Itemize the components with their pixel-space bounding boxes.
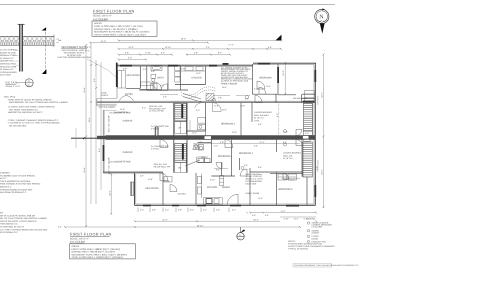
laundry boxes bottom unit [198, 145, 210, 163]
svg-text:16'x7' O.H. DOOR: 16'x7' O.H. DOOR [108, 157, 111, 174]
svg-text:COPYRIGHT RESERVED. THIS PLAN: COPYRIGHT RESERVED. THIS PLAN AND DESIGN… [294, 264, 359, 267]
svg-text:11'-8": 11'-8" [148, 178, 153, 181]
svg-text:12.7mm GYPSUM: 12.7mm GYPSUM [0, 49, 17, 52]
NOTES left column [4, 96, 68, 128]
svg-text:21'-8": 21'-8" [101, 40, 106, 43]
svg-text:TYPICAL (IF NOTED): TYPICAL (IF NOTED) [288, 247, 308, 250]
svg-text:OR OF 15.5mm PLYWOOD, OSB OR: OR OF 15.5mm PLYWOOD, OSB OR [0, 214, 35, 217]
svg-text:RD, OR 17mm TONGUE AND GROOVE: RD, OR 17mm TONGUE AND GROOVE LUMBER [0, 217, 47, 220]
svg-text:3'-0": 3'-0" [244, 164, 248, 167]
svg-text:AT 400mm O.C.: AT 400mm O.C. [0, 57, 15, 60]
svg-text:2'-8": 2'-8" [151, 70, 155, 73]
svg-text:13'-2": 13'-2" [282, 70, 285, 75]
svg-text:24'-8": 24'-8" [83, 87, 86, 92]
interior walls top unit [97, 64, 315, 136]
svg-text:GARAGE AREA = 257.06 S: GARAGE AREA = 257.06 SQ.FT. (23.88m²) [94, 28, 138, 31]
svg-text:- 2 LAYERS OF 12.7mm (½") TYPE: - 2 LAYERS OF 12.7mm (½") TYPE X GYPSUM … [7, 122, 60, 125]
svg-text:FIRST FLOOR AREA = 388.87 SQ.: FIRST FLOOR AREA = 388.87 SQ.FT. (36.13m… [71, 248, 120, 251]
svg-text:33'-4": 33'-4" [321, 169, 324, 174]
svg-text:10'-0": 10'-0" [290, 179, 295, 182]
svg-text:12'-6": 12'-6" [232, 131, 237, 134]
svg-text:BEDROOM 2: BEDROOM 2 [221, 123, 236, 126]
svg-text:G BOARD: G BOARD [0, 172, 10, 175]
svg-text:2x6 WALL: 2x6 WALL [178, 193, 188, 196]
svg-text:GARAGE: GARAGE [123, 151, 133, 154]
svg-text:12.7mm GYP BD: 12.7mm GYP BD [149, 110, 164, 113]
misc note blocks inside plan [178, 66, 309, 195]
svg-text:MUD ROOM: MUD ROOM [145, 187, 158, 190]
svg-text:SECONDARY SUITE AREA = 646.17: SECONDARY SUITE AREA = 646.17 SQ.FT. (60… [71, 253, 127, 256]
svg-text:12'-0": 12'-0" [192, 148, 197, 151]
svg-text:JOISTS OR WOOD I-JOISTS SPACED: JOISTS OR WOOD I-JOISTS SPACED [0, 220, 37, 223]
svg-text:11'-2": 11'-2" [214, 105, 219, 108]
svg-text:GYPSUM BOARD: GYPSUM BOARD [0, 71, 17, 74]
svg-text:4'-0": 4'-0" [165, 209, 169, 212]
left/right dim labels [83, 70, 324, 195]
svg-text:4'-0": 4'-0" [160, 84, 164, 87]
svg-text:3'-6": 3'-6" [163, 96, 167, 99]
svg-text:GARAGE AREA = 260.38 S: GARAGE AREA = 260.38 SQ.FT. (24.19m²) [71, 251, 115, 254]
svg-text:100 AMP PANEL: 100 AMP PANEL [293, 97, 309, 100]
top rule [0, 4, 335, 6]
copyright [293, 264, 332, 267]
svg-text:11'-4": 11'-4" [258, 197, 263, 200]
svg-text:9'-6": 9'-6" [258, 166, 262, 169]
svg-text:5'-0": 5'-0" [232, 209, 236, 212]
svg-text:5'-8": 5'-8" [123, 68, 127, 71]
svg-text:KITCHEN: KITCHEN [191, 76, 201, 79]
svg-text:6'-2": 6'-2" [140, 175, 144, 178]
svg-text:ENTRY: ENTRY [125, 93, 133, 96]
svg-text:WALL (P7a): WALL (P7a) [4, 96, 15, 99]
svg-text:FAMILY ROOM: FAMILY ROOM [221, 83, 237, 86]
svg-text:KS 38x89mm (2x4") STUDS SPACED: KS 38x89mm (2x4") STUDS SPACED [0, 174, 36, 177]
svg-text:- 2x WOOD JOISTS OR WOOD I-JOI: - 2x WOOD JOISTS OR WOOD I-JOISTS SPACED [7, 106, 55, 109]
stairs center [175, 94, 201, 173]
svg-text:16'-0": 16'-0" [108, 190, 111, 195]
svg-text:EACH SIDE: EACH SIDE [246, 182, 257, 185]
svg-text:10'-2": 10'-2" [196, 72, 201, 75]
interior dim strings [120, 67, 295, 200]
svg-text:4'-6": 4'-6" [216, 209, 220, 212]
svg-text:5'-2": 5'-2" [265, 214, 269, 217]
svg-text:11'-0": 11'-0" [266, 85, 271, 88]
svg-text:3'-0": 3'-0" [128, 57, 132, 60]
svg-text:6'-0": 6'-0" [203, 209, 207, 212]
svg-text:12'-10": 12'-10" [180, 67, 186, 70]
svg-text:2'-6": 2'-6" [254, 145, 258, 148]
svg-text:35'-6": 35'-6" [181, 37, 186, 40]
svg-text:9'-6": 9'-6" [258, 123, 262, 126]
svg-text:8'-4": 8'-4" [98, 148, 101, 152]
svg-text:BEDROOM: BEDROOM [260, 77, 272, 80]
kitchen top unit [151, 66, 216, 98]
svg-text:BEDROOM 5: BEDROOM 5 [279, 188, 294, 191]
svg-text:PROOF WALL TYP: PROOF WALL TYP [154, 166, 172, 169]
room labels [109, 74, 293, 191]
svg-text:9'-0": 9'-0" [142, 107, 146, 110]
top dim ticks [89, 39, 282, 60]
mudroom closet [118, 71, 126, 89]
svg-text:EACH SIDE: EACH SIDE [0, 74, 12, 77]
svg-text:ALARM: ALARM [312, 232, 319, 235]
svg-text:KITCHEN: KITCHEN [207, 186, 217, 189]
svg-text:LOADED BEARING: LOADED BEARING [254, 111, 272, 114]
svg-text:24'-8": 24'-8" [83, 167, 86, 172]
top dim labels [86, 37, 273, 59]
svg-text:DETAIL: DETAIL [6, 81, 19, 85]
svg-text:2x CONCRETE: 2x CONCRETE [114, 111, 129, 114]
svg-text:THAN 600mm O.C.: THAN 600mm O.C. [0, 223, 18, 226]
svg-text:5'-0": 5'-0" [190, 209, 194, 212]
svg-text:6'-0": 6'-0" [305, 132, 309, 135]
svg-text:12'-6": 12'-6" [120, 108, 125, 111]
under-wall dim labels [140, 209, 269, 217]
svg-text:2'-10": 2'-10" [210, 179, 215, 182]
svg-text:- ABSORPTIVE MATERIAL IN CAVIT: - ABSORPTIVE MATERIAL IN CAVITY [7, 111, 43, 114]
svg-text:12'-0": 12'-0" [192, 132, 197, 135]
svg-text:5'-2": 5'-2" [87, 46, 91, 49]
svg-text:3'-0": 3'-0" [196, 109, 200, 112]
svg-text:600mm O.C.: 600mm O.C. [0, 186, 12, 189]
svg-text:5'-10": 5'-10" [145, 52, 150, 55]
svg-text:GYPSUM BOARD ON EACH SIDE: GYPSUM BOARD ON EACH SIDE [0, 188, 33, 191]
interior walls bottom unit [163, 140, 307, 206]
svg-text:WALL 2x6 WALL: WALL 2x6 WALL [254, 114, 270, 117]
svg-text:- SUBFLOOR OF 15.5mm PLYWOOD,: - SUBFLOOR OF 15.5mm PLYWOOD, OSB OR [7, 98, 52, 101]
svg-text:TOTAL FLOOR AREA = 1108.02 SQ.: TOTAL FLOOR AREA = 1108.02 SQ.FT. (102.9… [71, 256, 123, 259]
svg-text:33'-4": 33'-4" [321, 92, 324, 97]
svg-text:BEDROOM 4: BEDROOM 4 [239, 152, 254, 155]
svg-text:AT 600mm O.C.: AT 600mm O.C. [0, 68, 15, 71]
svg-text:MATERIAL 89mm: MATERIAL 89mm [0, 63, 17, 66]
svg-text:WALL 2x6: WALL 2x6 [283, 154, 293, 157]
svg-text:MUD ROOM: MUD ROOM [126, 74, 139, 77]
svg-text:11'-2": 11'-2" [280, 210, 285, 213]
svg-text:RING CHANNELS ON ONE SIDE SPAC: RING CHANNELS ON ONE SIDE SPACED [0, 183, 41, 186]
svg-text:11'-2": 11'-2" [293, 217, 298, 220]
svg-text:9'x7' O.H. DOOR: 9'x7' O.H. DOOR [99, 106, 115, 109]
door arcs [154, 81, 302, 205]
detail callout circle bottom [237, 227, 245, 240]
svg-text:4" THICK: 4" THICK [151, 147, 160, 150]
svg-text:2x CONCRETE PAD: 2x CONCRETE PAD [109, 161, 130, 164]
svg-text:DRAIN: DRAIN [312, 237, 319, 240]
windows [103, 63, 317, 207]
svg-text:16'x7' O.H. DOOR: 16'x7' O.H. DOOR [108, 115, 111, 132]
svg-text:5'-8": 5'-8" [125, 52, 129, 55]
svg-text:6'-6": 6'-6" [268, 46, 272, 49]
svg-text:AT 16" O.C.: AT 16" O.C. [283, 157, 294, 160]
svg-text:AREAS: AREAS [71, 245, 79, 248]
svg-text:9'-2": 9'-2" [93, 78, 96, 82]
svg-text:5'-6": 5'-6" [216, 169, 220, 172]
svg-text:4'-8": 4'-8" [194, 52, 198, 55]
svg-text:3'-0": 3'-0" [315, 166, 318, 170]
svg-text:CO ALARM: CO ALARM [312, 226, 323, 229]
svg-text:4'-10": 4'-10" [283, 217, 288, 220]
svg-text:DINING: DINING [222, 186, 230, 189]
svg-text:BOARD EA SIDE: BOARD EA SIDE [0, 51, 16, 54]
svg-text:ER: ER [0, 212, 3, 215]
svg-text:AREAS: AREAS [94, 22, 102, 25]
stairs right [302, 103, 312, 177]
svg-text:4'-2": 4'-2" [214, 145, 218, 148]
svg-text:PORCH: PORCH [101, 94, 109, 97]
svg-text:AND 38mm OR 600mm O.C.: AND 38mm OR 600mm O.C. [0, 191, 27, 194]
garage right walls + stair shaft [174, 103, 187, 173]
TITLE TOP [92, 10, 157, 37]
party wall stair gap [303, 136, 309, 139]
svg-text:3'-0": 3'-0" [140, 209, 144, 212]
svg-text:12'-6": 12'-6" [128, 46, 133, 49]
BOTTOM TITLE BLOCK [69, 233, 135, 260]
svg-text:BATH: BATH [202, 156, 208, 159]
svg-text:3'-2": 3'-2" [143, 68, 147, 71]
svg-text:3'-2": 3'-2" [161, 52, 165, 55]
svg-text:- STEEL 'FURRING' CHANNELS SPA: - STEEL 'FURRING' CHANNELS SPACED 600mm … [7, 119, 59, 122]
svg-text:12'-10": 12'-10" [165, 46, 172, 49]
closet hall top unit [141, 82, 315, 102]
svg-text:10'-8": 10'-8" [240, 105, 245, 108]
svg-text:10'-4": 10'-4" [162, 218, 167, 221]
svg-text:2'-8": 2'-8" [218, 97, 222, 100]
svg-text:CLOS.: CLOS. [163, 180, 170, 183]
svg-text:ON CEILING SIDE: ON CEILING SIDE [9, 124, 27, 127]
svg-text:GARAGE: GARAGE [123, 119, 133, 122]
svg-text:(½") TYPE X GYPSUM BOARD ON CE: (½") TYPE X GYPSUM BOARD ON CEILING SIDE [0, 228, 48, 231]
LEGEND [307, 217, 333, 243]
PLAN-DIMS [65, 40, 324, 227]
svg-text:m O.C.: m O.C. [0, 177, 7, 180]
kitchen bottom unit [197, 174, 222, 205]
svg-text:9'-6": 9'-6" [276, 113, 279, 117]
svg-text:FIRST FLOOR PLAN: FIRST FLOOR PLAN [70, 233, 112, 237]
svg-text:ED AT 600mm O.C.: ED AT 600mm O.C. [0, 231, 19, 234]
bottom dim ticks/labels [64, 174, 317, 229]
svg-text:SECONDARY SUITE AREA = 483.62: SECONDARY SUITE AREA = 483.62 SQ.FT. (44… [94, 31, 150, 34]
svg-text:ABSORPTIVE: ABSORPTIVE [0, 60, 14, 63]
svg-text:BEDROOM 3: BEDROOM 3 [218, 155, 233, 158]
svg-text:3'-10": 3'-10" [254, 88, 259, 91]
svg-text:VE MATERIAL IN CAVITY: VE MATERIAL IN CAVITY [0, 226, 25, 229]
svg-text:3'-6": 3'-6" [178, 209, 182, 212]
PLAN-WALLS [103, 63, 316, 205]
svg-text:5'-2": 5'-2" [58, 225, 62, 228]
COMPASS / NORTH ARROW [315, 8, 329, 34]
svg-text:NOT MORE THAN 600mm O.C.: NOT MORE THAN 600mm O.C. [9, 108, 39, 111]
SECONDARY SUITE heading [58, 46, 116, 77]
svg-text:11'-6": 11'-6" [88, 117, 91, 122]
svg-text:13'-2": 13'-2" [222, 109, 227, 112]
svg-text:THICK ABSORPTIVE MATERIAL: THICK ABSORPTIVE MATERIAL [0, 180, 32, 183]
svg-text:2'-4": 2'-4" [206, 46, 210, 49]
svg-text:RESILIENT CHNL: RESILIENT CHNL [0, 65, 18, 68]
svg-text:BATH: BATH [158, 76, 164, 79]
svg-text:17'-4": 17'-4" [228, 43, 233, 46]
svg-text:FIRST FLOOR AREA = 482.41 SQ.: FIRST FLOOR AREA = 482.41 SQ.FT. (44.75m… [94, 25, 143, 28]
svg-text:ALARMS AS PER BCBC 2024: ALARMS AS PER BCBC 2024 [221, 80, 249, 83]
party wall [71, 137, 97, 139]
svg-text:TOTAL FLOOR AREA = 1223.41 SQ.: TOTAL FLOOR AREA = 1223.41 SQ.FT. (113.7… [94, 33, 146, 36]
svg-text:FAMILY ROOM: FAMILY ROOM [246, 192, 260, 195]
svg-text:20'-2": 20'-2" [253, 218, 258, 221]
svg-text:SCALE 1"=1'-0": SCALE 1"=1'-0" [6, 85, 21, 88]
svg-text:9'-8": 9'-8" [220, 141, 224, 144]
svg-text:WAFERBOARD, OR 17mm TONGUE AND: WAFERBOARD, OR 17mm TONGUE AND GROOVE LU… [9, 101, 68, 104]
svg-text:(TYP): (TYP) [254, 119, 260, 122]
svg-text:46'-10": 46'-10" [197, 224, 204, 227]
svg-text:4" THICK: 4" THICK [151, 127, 160, 130]
svg-text:AT 16" O.C.: AT 16" O.C. [254, 117, 265, 120]
porch steps left [97, 99, 117, 106]
svg-text:4'-2": 4'-2" [198, 141, 202, 144]
svg-text:5'-6": 5'-6" [152, 209, 156, 212]
WALL DETAIL top-left [0, 24, 62, 88]
svg-text:3'-4": 3'-4" [252, 214, 256, 217]
svg-text:FIRST FLOOR PLAN: FIRST FLOOR PLAN [93, 10, 135, 14]
svg-text:12'-4": 12'-4" [259, 141, 264, 144]
mudroom bottom hatch wall [131, 182, 135, 196]
svg-text:LEGEND: LEGEND [307, 217, 316, 220]
left wall segments [116, 63, 118, 87]
svg-text:8'-2": 8'-2" [218, 52, 222, 55]
svg-text:LOADED BEARING: LOADED BEARING [283, 152, 301, 155]
svg-text:3'-0": 3'-0" [86, 49, 90, 52]
svg-text:N: N [319, 15, 324, 21]
main horizontal wall y101-102.6 [97, 100, 315, 102]
NOTES bottom [288, 240, 335, 251]
svg-text:16'-4": 16'-4" [222, 86, 227, 89]
